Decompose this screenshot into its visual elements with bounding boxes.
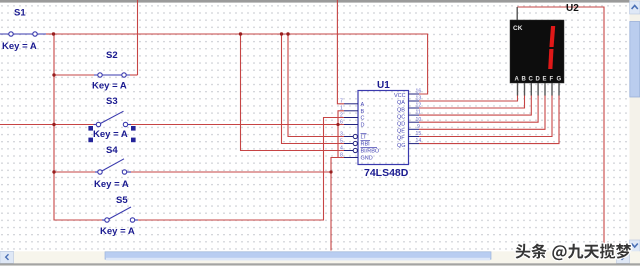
- svg-text:LT: LT: [361, 135, 368, 141]
- svg-text:5: 5: [340, 138, 343, 144]
- svg-text:12: 12: [416, 103, 422, 109]
- svg-text:16: 16: [416, 89, 422, 95]
- svg-text:CK: CK: [513, 25, 523, 32]
- svg-text:E: E: [543, 77, 547, 83]
- svg-text:D: D: [361, 123, 365, 129]
- svg-text:14: 14: [416, 138, 422, 144]
- svg-text:3: 3: [340, 131, 343, 137]
- svg-text:BI/RBO: BI/RBO: [361, 149, 380, 155]
- svg-text:2: 2: [340, 112, 343, 118]
- svg-text:D: D: [536, 77, 541, 83]
- svg-text:QA: QA: [397, 100, 405, 106]
- svg-text:RBI: RBI: [361, 142, 371, 148]
- svg-text:Key = A: Key = A: [93, 129, 128, 140]
- svg-text:QF: QF: [397, 136, 405, 142]
- svg-text:A: A: [515, 77, 520, 83]
- svg-text:S1: S1: [14, 8, 26, 19]
- svg-text:S4: S4: [106, 145, 118, 156]
- svg-text:13: 13: [416, 96, 422, 102]
- svg-text:C: C: [529, 77, 534, 83]
- svg-text:8: 8: [340, 152, 343, 158]
- svg-text:QD: QD: [397, 122, 405, 128]
- svg-text:A: A: [361, 102, 365, 108]
- svg-text:QE: QE: [397, 129, 405, 135]
- svg-text:S3: S3: [106, 96, 118, 107]
- svg-text:B: B: [522, 77, 527, 83]
- svg-text:4: 4: [340, 145, 343, 151]
- svg-text:Key = A: Key = A: [2, 41, 37, 52]
- svg-text:B: B: [361, 109, 365, 115]
- svg-text:S2: S2: [106, 50, 118, 61]
- svg-text:10: 10: [416, 117, 422, 123]
- svg-text:U1: U1: [377, 80, 390, 91]
- svg-text:VCC: VCC: [394, 93, 406, 99]
- svg-text:QB: QB: [397, 107, 405, 113]
- svg-text:Key = A: Key = A: [100, 226, 135, 237]
- svg-text:Key = A: Key = A: [92, 81, 127, 92]
- svg-text:1: 1: [340, 106, 343, 112]
- svg-text:74LS48D: 74LS48D: [364, 167, 409, 179]
- svg-text:6: 6: [340, 119, 343, 125]
- svg-text:G: G: [557, 77, 562, 83]
- svg-text:7: 7: [340, 99, 343, 105]
- svg-text:QC: QC: [397, 114, 405, 120]
- svg-text:11: 11: [416, 110, 421, 116]
- svg-text:15: 15: [416, 131, 422, 137]
- svg-text:C: C: [361, 116, 365, 122]
- svg-text:F: F: [550, 77, 554, 83]
- svg-text:Key = A: Key = A: [94, 179, 129, 190]
- svg-text:U2: U2: [566, 3, 579, 14]
- svg-text:9: 9: [417, 124, 420, 130]
- svg-text:S5: S5: [116, 195, 128, 206]
- svg-text:GND: GND: [361, 156, 373, 162]
- svg-text:QG: QG: [397, 143, 406, 149]
